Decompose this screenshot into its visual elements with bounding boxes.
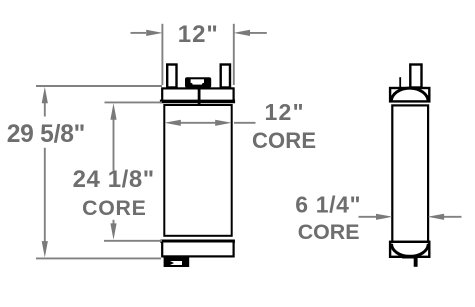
24 1/8 bottom extension line xyxy=(104,240,162,242)
29 5/8 top extension line xyxy=(36,85,162,87)
filler neck (side view) xyxy=(410,65,421,88)
svg-text:24 1/8": 24 1/8" xyxy=(73,166,155,193)
29 5/8 dimension line lower segment with down arrow xyxy=(44,148,46,246)
12in top left arrow xyxy=(131,32,147,34)
drain stem (side view) xyxy=(414,255,418,266)
29 5/8 bottom extension line xyxy=(36,257,161,259)
24 1/8 dimension line upper segment with up arrow xyxy=(113,114,115,171)
filler cap (front view) xyxy=(185,77,211,88)
29 5/8 dimension line upper segment with up arrow xyxy=(44,98,46,117)
drain stub (front view) xyxy=(164,257,190,267)
12in core leader tail xyxy=(234,122,256,124)
svg-text:6 1/4": 6 1/4" xyxy=(295,192,360,218)
extension line left of 12in top dim xyxy=(161,24,163,85)
svg-text:29 5/8": 29 5/8" xyxy=(7,121,86,148)
core thick bottom line (front view) xyxy=(160,239,235,243)
6 1/4 core right arrow xyxy=(444,216,462,218)
24 1/8 dimension line lower segment with down arrow xyxy=(113,220,115,228)
top tank (front view) xyxy=(162,88,233,101)
svg-text:CORE: CORE xyxy=(252,128,316,153)
svg-text:CORE: CORE xyxy=(82,196,146,220)
top tank (side view) xyxy=(390,88,429,101)
extension line right of 12in top dim xyxy=(233,24,235,85)
bottom tank (front view) xyxy=(162,241,233,256)
svg-text:CORE: CORE xyxy=(298,220,360,244)
24 1/8 top extension line xyxy=(105,101,163,103)
top tank thick bottom line (front view) xyxy=(160,100,235,104)
bracket stub right (front view) xyxy=(221,65,230,88)
bracket stub left (front view) xyxy=(167,65,176,88)
12in core dimension double arrow xyxy=(170,122,226,124)
bottom dome arc (side view) xyxy=(392,244,429,257)
core (side view) xyxy=(392,105,428,242)
svg-text:12": 12" xyxy=(265,99,304,125)
tick on tank top (side view) xyxy=(399,77,401,87)
bottom tank (side view) xyxy=(390,242,429,257)
top dome arc (side view) xyxy=(391,88,428,101)
svg-text:12": 12" xyxy=(178,21,218,48)
6 1/4 core left arrow xyxy=(359,216,377,218)
top tank divider (front view) xyxy=(198,88,201,104)
core thick bottom line (side view) xyxy=(390,241,430,244)
core (front view) xyxy=(164,105,231,236)
12in top right arrow xyxy=(250,32,267,34)
